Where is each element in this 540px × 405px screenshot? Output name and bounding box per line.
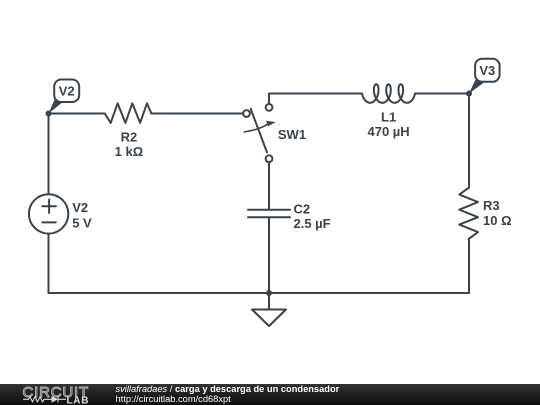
- switch SW1 actuation arc: [244, 124, 268, 132]
- svg-text:5 V: 5 V: [72, 216, 92, 231]
- resistor R3: [459, 188, 478, 239]
- svg-text:470 µH: 470 µH: [368, 124, 410, 139]
- bottom rail wire: [49, 292, 470, 294]
- wire V2 to bottom rail: [48, 234, 50, 293]
- svg-text:10 Ω: 10 Ω: [483, 213, 512, 228]
- svg-text:V3: V3: [479, 63, 495, 78]
- switch SW1 top throw terminal: [266, 104, 273, 111]
- svg-text:1 kΩ: 1 kΩ: [115, 144, 144, 159]
- svg-text:R2: R2: [121, 130, 138, 145]
- svg-text:C2: C2: [294, 202, 311, 217]
- svg-text:R3: R3: [483, 198, 500, 213]
- wire R2 to SW1: [151, 113, 243, 115]
- switch SW1 lever: [251, 109, 267, 152]
- wire SW1 bottom to C2: [268, 162, 270, 210]
- wire L1 to node B: [415, 93, 469, 95]
- footer text: [116, 385, 340, 404]
- wire C2 to bottom rail: [268, 217, 270, 293]
- voltage source V2 body: [29, 194, 68, 233]
- voltage source V2 plus and minus marks: [42, 200, 56, 223]
- logo diode symbol: [52, 396, 59, 403]
- svg-text:V2: V2: [59, 84, 75, 99]
- logo resistor zigzag and wire: [23, 396, 66, 402]
- svg-text:LAB: LAB: [67, 395, 90, 405]
- wire node A to R2: [49, 113, 105, 115]
- resistor R2: [105, 103, 152, 123]
- junction dot node B: [466, 91, 472, 97]
- wire ground stub: [268, 293, 270, 310]
- junction dot ground node: [266, 290, 272, 296]
- capacitor C2 bottom plate: [248, 216, 290, 218]
- node flag V2: [49, 80, 80, 114]
- switch SW1 arrowhead: [266, 121, 276, 127]
- svg-text:L1: L1: [381, 110, 396, 125]
- junction dot node A: [46, 111, 52, 117]
- wire R3 bottom: [468, 239, 470, 293]
- circuitlab logo: [0, 384, 100, 405]
- svg-text:2.5 µF: 2.5 µF: [294, 216, 331, 231]
- capacitor C2 top plate: [248, 209, 290, 211]
- inductor L1: [362, 84, 415, 103]
- wire node A down to V2: [48, 114, 50, 195]
- switch SW1 common terminal: [243, 110, 250, 117]
- node flag V3: [469, 59, 500, 94]
- wire SW1 top to L1: [269, 94, 362, 104]
- svg-text:SW1: SW1: [278, 127, 306, 142]
- ground: [252, 310, 286, 327]
- switch SW1 bottom throw terminal: [266, 155, 273, 162]
- wire node B down to R3: [468, 94, 470, 188]
- footer bar: [0, 384, 540, 405]
- svg-text:V2: V2: [72, 200, 88, 215]
